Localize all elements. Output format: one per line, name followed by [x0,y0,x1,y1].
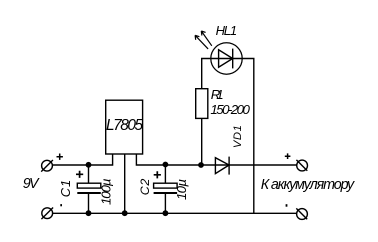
svg-text:150-200: 150-200 [210,102,250,117]
svg-text:C2: C2 [138,179,152,196]
svg-text:L7805: L7805 [106,117,143,134]
svg-text:9V: 9V [23,176,40,192]
svg-text:100µ: 100µ [98,178,113,205]
svg-text:C1: C1 [58,180,73,198]
svg-text:К аккумулятору: К аккумулятору [261,177,355,193]
svg-text:R1: R1 [211,87,224,102]
svg-text:VD1: VD1 [232,125,244,148]
svg-text:10µ: 10µ [174,179,189,200]
svg-text:HL1: HL1 [216,23,238,38]
